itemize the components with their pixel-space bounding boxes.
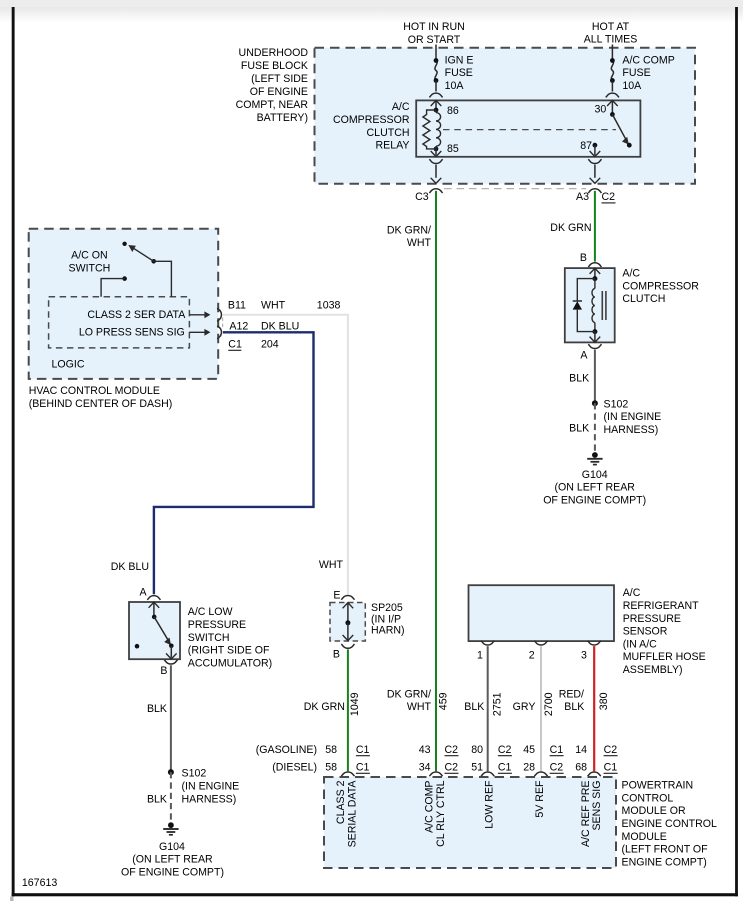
svg-text:BLK: BLK: [464, 701, 484, 713]
svg-text:BATTERY): BATTERY): [257, 112, 308, 124]
svg-text:1: 1: [477, 650, 483, 662]
svg-text:SP205: SP205: [371, 602, 403, 614]
svg-text:(DIESEL): (DIESEL): [272, 762, 317, 774]
svg-text:2700: 2700: [543, 692, 555, 716]
svg-text:RELAY: RELAY: [376, 140, 410, 152]
svg-text:MODULE OR: MODULE OR: [622, 805, 687, 817]
svg-text:(RIGHT SIDE OF: (RIGHT SIDE OF: [188, 645, 270, 657]
svg-text:OF ENGINE: OF ENGINE: [250, 86, 308, 98]
svg-text:COMPRESSOR: COMPRESSOR: [333, 114, 410, 126]
svg-text:S102: S102: [604, 398, 629, 410]
svg-text:A/C: A/C: [392, 101, 410, 113]
svg-text:C1: C1: [228, 339, 242, 351]
svg-text:(IN I/P: (IN I/P: [371, 613, 401, 625]
svg-text:CONTROL: CONTROL: [622, 792, 674, 804]
svg-text:POWERTRAIN: POWERTRAIN: [622, 780, 694, 792]
svg-text:A/C: A/C: [622, 268, 640, 280]
svg-text:ENGINE COMPT): ENGINE COMPT): [622, 856, 707, 868]
svg-text:PRESSURE: PRESSURE: [188, 619, 246, 631]
svg-text:C2: C2: [498, 744, 512, 756]
svg-text:14: 14: [575, 744, 587, 756]
svg-text:A/C COMP: A/C COMP: [622, 54, 674, 66]
svg-text:SENSOR: SENSOR: [623, 626, 668, 638]
svg-text:GRY: GRY: [513, 701, 536, 713]
svg-text:OF ENGINE COMPT): OF ENGINE COMPT): [543, 494, 646, 506]
svg-text:A: A: [140, 586, 148, 598]
svg-text:A/C REF PRE: A/C REF PRE: [580, 781, 592, 848]
svg-text:BLK: BLK: [147, 794, 167, 806]
svg-text:IGN E: IGN E: [445, 54, 474, 66]
svg-text:E: E: [333, 590, 340, 602]
svg-text:30: 30: [595, 104, 607, 116]
svg-text:(BEHIND CENTER OF DASH): (BEHIND CENTER OF DASH): [29, 398, 173, 410]
svg-text:S102: S102: [182, 768, 207, 780]
svg-text:CLUTCH: CLUTCH: [367, 127, 410, 139]
svg-text:BLK: BLK: [564, 701, 584, 713]
svg-text:MODULE: MODULE: [622, 831, 667, 843]
svg-text:5V REF: 5V REF: [534, 780, 546, 818]
svg-text:51: 51: [471, 762, 483, 774]
svg-text:A: A: [580, 350, 588, 362]
svg-text:MUFFLER HOSE: MUFFLER HOSE: [623, 651, 706, 663]
svg-text:HARNESS): HARNESS): [182, 794, 237, 806]
svg-text:WHT: WHT: [407, 701, 432, 713]
svg-text:(LEFT SIDE: (LEFT SIDE: [251, 73, 308, 85]
svg-text:PRESSURE: PRESSURE: [623, 613, 681, 625]
svg-text:LOW REF: LOW REF: [483, 780, 495, 829]
svg-text:SWITCH: SWITCH: [69, 263, 111, 275]
svg-text:HOT AT: HOT AT: [592, 21, 630, 33]
svg-text:HARN): HARN): [371, 625, 405, 637]
svg-text:SENS SIG: SENS SIG: [591, 781, 603, 831]
svg-text:CLASS 2 SER DATA: CLASS 2 SER DATA: [87, 309, 186, 321]
svg-text:REFRIGERANT: REFRIGERANT: [623, 600, 699, 612]
svg-text:1038: 1038: [317, 299, 341, 311]
svg-text:WHT: WHT: [261, 299, 286, 311]
svg-text:58: 58: [325, 762, 337, 774]
svg-text:COMPT, NEAR: COMPT, NEAR: [236, 99, 309, 111]
svg-text:86: 86: [447, 105, 459, 117]
svg-text:G104: G104: [159, 841, 185, 853]
svg-text:C1: C1: [356, 744, 370, 756]
svg-text:(GASOLINE): (GASOLINE): [256, 744, 317, 756]
svg-text:10A: 10A: [445, 80, 465, 92]
svg-text:1049: 1049: [349, 692, 361, 716]
svg-text:(IN A/C: (IN A/C: [623, 638, 657, 650]
svg-text:G104: G104: [582, 469, 608, 481]
svg-text:C1: C1: [498, 762, 512, 774]
svg-text:C2: C2: [602, 191, 616, 203]
svg-text:ASSEMBLY): ASSEMBLY): [623, 664, 683, 676]
svg-text:2751: 2751: [492, 692, 504, 716]
svg-text:BLK: BLK: [569, 423, 589, 435]
svg-text:C2: C2: [445, 744, 459, 756]
svg-text:34: 34: [419, 762, 431, 774]
svg-text:FUSE: FUSE: [622, 67, 650, 79]
svg-text:C1: C1: [604, 762, 618, 774]
svg-text:RED/: RED/: [559, 688, 584, 700]
svg-text:C2: C2: [550, 762, 564, 774]
svg-text:SWITCH: SWITCH: [188, 632, 230, 644]
svg-text:DK BLU: DK BLU: [261, 320, 299, 332]
svg-text:B: B: [333, 649, 340, 661]
svg-text:SERIAL DATA: SERIAL DATA: [347, 780, 359, 848]
svg-text:A3: A3: [576, 191, 589, 203]
svg-text:FUSE BLOCK: FUSE BLOCK: [241, 60, 308, 72]
svg-text:OR START: OR START: [408, 34, 461, 46]
svg-text:WHT: WHT: [319, 559, 344, 571]
svg-text:10A: 10A: [622, 80, 642, 92]
svg-text:CLASS 2: CLASS 2: [335, 780, 347, 824]
svg-text:LOGIC: LOGIC: [52, 358, 85, 370]
svg-text:C3: C3: [415, 191, 429, 203]
svg-text:3: 3: [581, 650, 587, 662]
svg-text:167613: 167613: [22, 877, 57, 889]
svg-text:B: B: [580, 252, 587, 264]
svg-text:BLK: BLK: [147, 703, 167, 715]
svg-text:C2: C2: [604, 744, 618, 756]
svg-text:C2: C2: [445, 762, 459, 774]
svg-text:(IN ENGINE: (IN ENGINE: [604, 411, 662, 423]
svg-text:A/C ON: A/C ON: [71, 250, 108, 262]
svg-text:DK GRN: DK GRN: [304, 701, 345, 713]
svg-text:2: 2: [529, 650, 535, 662]
svg-text:58: 58: [325, 744, 337, 756]
svg-text:(ON LEFT REAR: (ON LEFT REAR: [132, 854, 213, 866]
svg-text:CL RLY CTRL: CL RLY CTRL: [435, 780, 447, 846]
svg-text:OF ENGINE COMPT): OF ENGINE COMPT): [121, 866, 224, 878]
svg-text:C1: C1: [356, 762, 370, 774]
svg-text:87: 87: [580, 140, 592, 152]
svg-text:DK BLU: DK BLU: [111, 561, 149, 573]
svg-text:A/C LOW: A/C LOW: [188, 606, 233, 618]
svg-text:HARNESS): HARNESS): [604, 424, 659, 436]
svg-text:45: 45: [523, 744, 535, 756]
svg-text:ENGINE CONTROL: ENGINE CONTROL: [622, 818, 717, 830]
svg-text:204: 204: [261, 339, 279, 351]
svg-text:459: 459: [438, 692, 450, 710]
svg-text:80: 80: [471, 744, 483, 756]
svg-text:A12: A12: [229, 320, 248, 332]
svg-text:COMPRESSOR: COMPRESSOR: [622, 280, 699, 292]
svg-text:LO PRESS SENS SIG: LO PRESS SENS SIG: [79, 327, 185, 339]
svg-text:DK GRN/: DK GRN/: [387, 688, 431, 700]
svg-text:A/C COMP: A/C COMP: [424, 781, 436, 833]
svg-text:28: 28: [523, 762, 535, 774]
svg-text:(IN ENGINE: (IN ENGINE: [182, 781, 240, 793]
svg-text:DK GRN/: DK GRN/: [387, 224, 431, 236]
svg-text:380: 380: [598, 692, 610, 710]
svg-text:ACCUMULATOR): ACCUMULATOR): [188, 657, 272, 669]
svg-text:B: B: [160, 665, 167, 677]
svg-text:UNDERHOOD: UNDERHOOD: [239, 47, 309, 59]
svg-text:43: 43: [419, 744, 431, 756]
svg-text:HVAC CONTROL MODULE: HVAC CONTROL MODULE: [29, 385, 160, 397]
svg-text:CLUTCH: CLUTCH: [622, 293, 665, 305]
svg-text:A/C: A/C: [623, 587, 641, 599]
svg-text:DK GRN: DK GRN: [550, 222, 591, 234]
svg-text:ALL TIMES: ALL TIMES: [584, 34, 638, 46]
svg-text:B11: B11: [228, 299, 246, 311]
svg-text:68: 68: [575, 762, 587, 774]
svg-text:HOT IN RUN: HOT IN RUN: [403, 21, 465, 33]
svg-text:C1: C1: [550, 744, 564, 756]
svg-text:(LEFT FRONT OF: (LEFT FRONT OF: [622, 844, 709, 856]
svg-text:FUSE: FUSE: [445, 67, 473, 79]
svg-text:(ON LEFT REAR: (ON LEFT REAR: [554, 482, 635, 494]
svg-text:BLK: BLK: [569, 372, 589, 384]
svg-text:85: 85: [447, 143, 459, 155]
svg-text:WHT: WHT: [407, 237, 432, 249]
